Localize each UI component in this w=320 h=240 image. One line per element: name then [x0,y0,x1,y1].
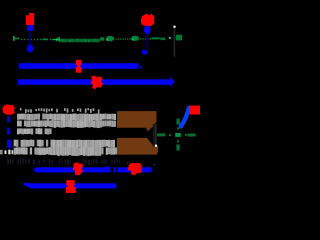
gray sequence row 3 [17,120,116,128]
blue bar D [33,166,153,172]
blue bar B [19,63,139,69]
marker M2 lower blue bead [142,50,148,55]
brown bar 2 [117,138,158,155]
green scale dash left [15,38,20,40]
green dash right 1 [152,37,160,39]
gray sequence row 4 [17,128,52,134]
green crosshair vertical arm [176,119,179,151]
green blob 3 [131,36,139,41]
green thick feature bar [60,39,100,43]
faint red speck [127,162,129,164]
green arrow glyph [52,37,60,42]
brown bar 1 [117,111,157,128]
green box right [176,35,182,41]
gray sequence row 2 [17,114,116,122]
mid lollipop stick segment 2 [7,128,10,135]
red hourglass marker on bar B [76,60,82,73]
marker M1 lower blue bead [27,45,34,53]
marker M1 red flag [26,13,34,25]
gray sequence row 5 [14,140,115,149]
green blob 2 [106,36,115,41]
blue bar E [23,183,117,189]
dark navy text row [7,159,120,166]
mid lollipop red head [2,104,15,115]
marker M2 stick [146,34,149,49]
green dash right 2 [160,38,165,41]
gray dotted sequence row 1 [20,108,100,113]
green dotted scale line segment 2 [116,38,131,39]
red splat 1 on bar D [73,162,83,175]
marker M1 upper blue bead [27,25,34,32]
gray corner mark [0,150,3,155]
blue blip right of bar B [140,66,141,68]
brown wedge below bar 1 [146,128,152,132]
green dotted scale line segment 3 [140,38,151,39]
red splat 2 on bar D [128,163,142,176]
red hourglass marker on bar E [66,180,76,193]
cyan dot [169,37,171,39]
green dotted scale line segment 1 [21,38,51,40]
marker M2 red splat [141,14,155,27]
gray sequence row 6 [14,147,118,156]
bar D gap 2 [116,167,117,172]
green blob 1 [100,37,104,41]
cursor V1 white dot [173,26,175,28]
green crosshair horizontal arm [157,133,196,136]
mid lollipop stick segment 3 [7,140,11,149]
mid lollipop stick segment 1 [7,116,10,122]
marker M2 upper blue bead [144,25,151,34]
red splat marker on bar C [90,76,103,90]
faint blue speck [154,164,156,166]
red block top right [189,106,200,115]
green scale tick left [13,36,15,41]
blue bar C [18,77,175,86]
marker M1 stick [29,31,32,45]
cursor V2 vertical bracket [153,124,157,147]
blue comma stroke [181,108,189,127]
green crosshair center [175,133,181,137]
bar D gap 1 [111,167,114,172]
cursor V2 white dot [155,145,157,147]
bright glyph specks row 6 left [5,150,14,155]
cursor V1 vertical line [174,28,176,57]
